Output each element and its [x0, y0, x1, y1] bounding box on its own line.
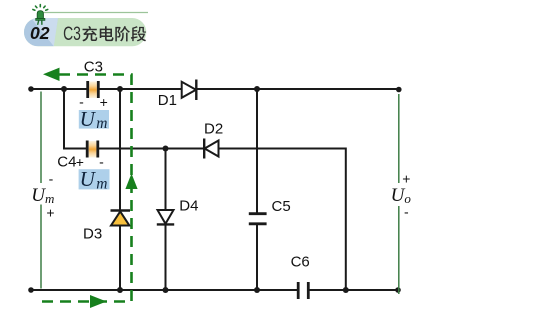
svg-text:C3: C3 — [63, 23, 81, 45]
capacitor C4 (charging, orange glow) — [87, 141, 98, 158]
capacitor C5 — [249, 214, 267, 224]
wire node B vertical through D3 — [119, 89, 121, 290]
svg-text:C4: C4 — [57, 154, 76, 171]
svg-text:02: 02 — [30, 23, 50, 43]
decorative thin green line behind badge — [41, 12, 148, 14]
wire top-left (terminal to C3 left plate) — [31, 88, 88, 90]
svg-text:C3: C3 — [84, 58, 103, 75]
terminal top-right — [396, 87, 402, 93]
svg-text:D4: D4 — [179, 197, 198, 214]
badge title 充电阶段 (CJK glyph paths) — [82, 26, 146, 41]
LED icon — [33, 5, 48, 25]
svg-text:Um: Um — [31, 185, 54, 206]
node D4 tap junction — [163, 146, 169, 152]
svg-text:-: - — [49, 170, 54, 186]
svg-text:+: + — [100, 94, 108, 110]
diode D3 (conducting, filled orange) — [111, 211, 131, 226]
wire node A drop and to C4 left plate — [64, 89, 87, 149]
wire C5 branch upper — [256, 89, 258, 214]
node D2-branch bottom junction — [343, 287, 349, 293]
svg-text:-: - — [404, 203, 409, 219]
svg-text:D2: D2 — [204, 121, 223, 138]
wire top-right (C3 right plate through D1 to right terminal) — [98, 88, 398, 90]
terminal bottom-left — [28, 287, 34, 293]
diode D2 — [204, 139, 218, 159]
svg-text:+: + — [46, 204, 54, 220]
terminal top-left — [28, 86, 34, 92]
wire bottom-right (C6 right plate to right terminal) — [308, 289, 398, 291]
svg-text:C6: C6 — [291, 253, 310, 270]
diode D1 — [182, 80, 197, 101]
node C5 top junction — [254, 86, 260, 92]
svg-text:D1: D1 — [158, 92, 177, 109]
current loop dashed path — [39, 75, 132, 302]
wire bottom-left (terminal to C6 left plate) — [31, 289, 298, 291]
C4 voltage box Um — [79, 167, 110, 192]
capacitor C6 — [298, 282, 308, 299]
wire D4 branch — [165, 149, 167, 291]
output bracket line Uo (right) — [398, 94, 400, 294]
capacitor C3 (charging, orange glow) — [88, 81, 99, 98]
node D3 bottom junction — [117, 287, 123, 293]
node C5 bottom junction — [254, 287, 260, 293]
input bracket line Um (left) — [40, 92, 42, 289]
wire C4 right plate to D2 branch corner and down — [98, 149, 346, 291]
node B (C3 right / D3 top) — [117, 86, 123, 92]
title badge pill — [24, 18, 146, 46]
current loop arrow left (top) — [43, 68, 60, 81]
terminal bottom-right — [395, 287, 401, 293]
C3 voltage box Um — [79, 107, 109, 132]
wire C5 branch lower — [256, 224, 258, 290]
node D4 bottom junction — [163, 287, 169, 293]
current loop arrow up (right side) — [125, 174, 137, 190]
svg-text:C5: C5 — [272, 198, 291, 215]
svg-text:D3: D3 — [83, 225, 102, 242]
current loop arrow right (bottom) — [90, 295, 107, 308]
svg-text:-: - — [99, 153, 104, 169]
node A (C3/C4 left) — [61, 86, 67, 92]
diode D4 — [157, 210, 174, 224]
